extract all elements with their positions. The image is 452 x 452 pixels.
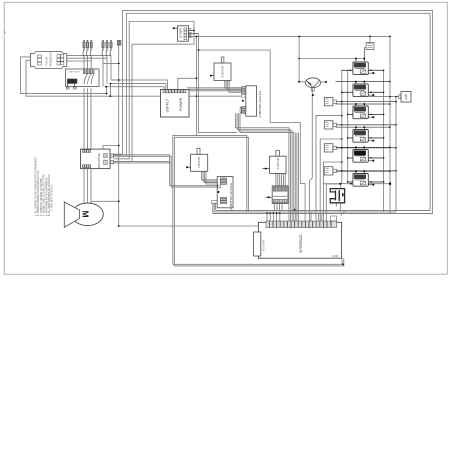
wire inverter top-right control — [103, 146, 119, 150]
line filter FL1 — [66, 69, 100, 89]
junction dots: breaker and filter net junctions — [106, 93, 108, 95]
svg-text:SUPPLY: SUPPLY — [165, 98, 169, 112]
wire shield loop around x-driver section — [173, 136, 344, 266]
wire x-driver bottom pins to bus — [213, 203, 216, 213]
svg-text:7. DRG NOT TO SCALE: 7. DRG NOT TO SCALE — [51, 184, 54, 211]
wire relay ladder top feed — [189, 36, 390, 213]
limit switch plug S1 — [324, 98, 396, 106]
svg-text:PC PORT: PC PORT — [262, 239, 266, 251]
svg-text:INVERTER: INVERTER — [97, 153, 101, 169]
svg-text:INTERFACE: INTERFACE — [299, 234, 303, 253]
wire z-driver band to interface bundle — [199, 50, 306, 221]
wire bracket bottom pins — [336, 204, 340, 213]
wire bus bottom lines — [213, 210, 433, 213]
svg-text:X MOTOR DRIVER: X MOTOR DRIVER — [229, 182, 233, 210]
wire limit switch L-drops — [316, 116, 342, 221]
svg-text:GND: GND — [333, 254, 339, 258]
relay KA5 — [336, 147, 390, 162]
wire loop B (inner control bus loop) — [114, 13, 431, 210]
wire interface drops group1 — [267, 212, 280, 221]
wire inverter tabs to x-driver pair — [114, 155, 221, 187]
relay aux box — [366, 42, 374, 49]
coolant motor block M2 — [211, 57, 231, 81]
wire fan circuit — [299, 36, 364, 221]
wire interface drops group3 — [311, 212, 322, 221]
svg-text:PHASE: PHASE — [45, 56, 49, 65]
wire three-phase inverter to motor — [84, 169, 119, 204]
wire 3-motor bottom pins — [275, 204, 283, 211]
wire phase input left loop 1 — [21, 57, 107, 94]
circuit breaker CB2 (3-pole) — [102, 40, 112, 56]
wire relay buses vertical — [342, 70, 396, 212]
wire phase input left loop 2 — [26, 60, 241, 96]
wire loop A (outer control bus loop) — [114, 11, 433, 214]
relay KA4 — [336, 127, 390, 142]
relay KA2 — [336, 82, 390, 97]
wire three-phase filter to inverter — [84, 88, 91, 149]
wire 3-motor stack wires — [276, 173, 285, 186]
junction dots: block terminal dots — [173, 27, 175, 29]
wire 3-phase from phase relay to breakers — [67, 55, 111, 86]
relay KA3 — [336, 104, 390, 119]
svg-text:M: M — [81, 211, 91, 218]
wire 2-motor top to z-driver — [187, 81, 241, 93]
svg-text:2 MOTOR: 2 MOTOR — [221, 66, 225, 78]
svg-text:1 MOTOR: 1 MOTOR — [197, 157, 201, 169]
junction dots: relay side lead dots — [349, 70, 351, 72]
wire three-phase breaker1 to filter — [84, 57, 91, 69]
wire riser to filter 1 — [105, 87, 108, 94]
limit switch plug S3 — [324, 144, 396, 152]
c axis motor block M5 (3 MOTOR) — [263, 151, 287, 174]
spindle motor M — [64, 202, 103, 227]
phase sequence relay K0 — [30, 52, 66, 69]
wire 1-motor to x-driver — [202, 171, 221, 184]
border frame — [4, 2, 447, 274]
wire loop D — [114, 44, 133, 161]
z motor driver A2 — [240, 86, 256, 116]
svg-text:SEQUENCE: SEQUENCE — [49, 52, 53, 67]
junction dots: relay coil pin dots — [355, 58, 357, 60]
relay KA1 — [342, 48, 384, 75]
wire single breaker drop — [103, 49, 258, 227]
svg-text:LAMP: LAMP — [405, 93, 408, 100]
limit switch plug S2 — [324, 121, 396, 129]
svg-text:BLOWER: BLOWER — [181, 28, 183, 38]
power supply PSU — [161, 90, 190, 118]
svg-text:2 MOTOR DRIVER: 2 MOTOR DRIVER — [258, 90, 262, 117]
wire interface drop diagonal — [341, 211, 346, 216]
wire bracket top line — [323, 184, 390, 188]
svg-text:LINE FILTER: LINE FILTER — [68, 72, 80, 74]
interface board U2 — [254, 216, 342, 258]
cooling fan B2 — [305, 78, 320, 91]
wire power supply pin riser pair — [178, 33, 237, 135]
junction dots: vertical bus taps — [383, 70, 385, 72]
svg-text:3 MOTOR: 3 MOTOR — [276, 158, 280, 170]
x axis motor M4 (1 MOTOR) — [187, 148, 208, 171]
limit switch plug S4 — [324, 167, 396, 175]
spindle unit block U3 — [399, 92, 411, 103]
x motor driver A1 — [212, 177, 233, 208]
circuit breaker CB1 (3-pole) — [83, 40, 92, 56]
wire breaker2 outputs to power supply — [106, 80, 168, 90]
svg-text:POWER: POWER — [179, 97, 183, 111]
encoder socket J1 (bracket) — [330, 189, 344, 203]
junction dots: encoder socket and bus junctions — [339, 183, 341, 185]
inverter U1 — [81, 149, 114, 169]
relay KA6 — [336, 171, 390, 186]
wire loop C — [114, 22, 195, 159]
c motor driver A3 (finned) — [266, 186, 289, 204]
wire riser to filter 2 — [109, 84, 111, 97]
coolant pump block B1 — [174, 26, 199, 41]
notes legend text — [35, 157, 54, 216]
circuit breaker CB3 (1-pole) — [117, 41, 121, 49]
wire right block feed — [368, 96, 399, 98]
